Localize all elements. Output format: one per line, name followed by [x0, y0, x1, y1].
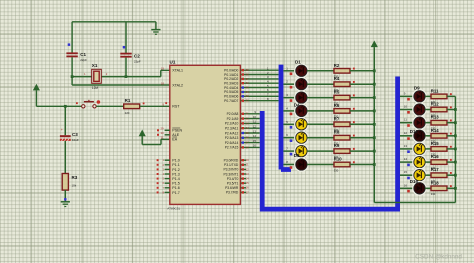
wire bus exit net 3 to LED — [283, 97, 295, 99]
svg-text:22: 22 — [246, 117, 250, 121]
wire resistor R15 to supply rail — [447, 148, 455, 150]
wire bus exit net 8 to LED — [283, 164, 295, 166]
svg-text:R12: R12 — [431, 102, 439, 107]
wire LED D13 to resistor — [425, 148, 431, 150]
svg-text:31: 31 — [160, 136, 164, 140]
power VCC arrow LED supply — [371, 41, 377, 46]
svg-text:3: 3 — [286, 93, 288, 97]
wire LED D14 to resistor — [425, 161, 431, 163]
wire resistor R2 to supply rail — [350, 70, 374, 72]
svg-text:15: 15 — [404, 170, 408, 174]
LED D16 — [413, 182, 426, 195]
svg-text:R16: R16 — [431, 154, 439, 159]
LED D11 — [413, 116, 426, 129]
wire resistor R4 to supply rail — [350, 83, 374, 85]
wire C1 bottom lead — [71, 57, 73, 85]
wire VCC to EA pin — [142, 136, 170, 145]
wire LED D5 to resistor — [307, 123, 334, 125]
svg-text:8: 8 — [286, 160, 288, 164]
wire resistor R8 to supply rail — [350, 137, 374, 139]
node junction supply rail right — [454, 134, 457, 137]
svg-text:P1.5: P1.5 — [172, 182, 179, 186]
svg-text:1: 1 — [286, 66, 288, 70]
node junction supply rail right — [454, 108, 457, 111]
svg-text:D12: D12 — [410, 129, 419, 134]
pin P3.6/WR stub — [240, 187, 246, 189]
LED D1 — [295, 64, 308, 77]
svg-text:21: 21 — [246, 112, 250, 116]
wire LED D15 to resistor — [425, 174, 431, 176]
svg-text:12: 12 — [404, 131, 408, 135]
resistor R6 — [334, 103, 355, 119]
resistor R1 — [124, 98, 145, 115]
svg-text:R17: R17 — [431, 167, 439, 172]
svg-text:P3.3/INT1: P3.3/INT1 — [223, 172, 238, 176]
wire RST row down to C3 — [64, 106, 66, 135]
wire bus exit net 2 to LED — [283, 83, 295, 85]
pin P1.0 stub — [165, 159, 170, 161]
wire crystal row to XTAL1 — [72, 70, 170, 76]
node junction supply rail — [373, 150, 376, 153]
svg-text:P2.1/A9: P2.1/A9 — [227, 117, 239, 121]
svg-text:16: 16 — [404, 183, 408, 187]
wire C1 top lead — [71, 22, 73, 53]
svg-text:16: 16 — [253, 144, 257, 148]
svg-text:U1: U1 — [170, 60, 176, 65]
pin P3.3/INT1 stub — [240, 173, 246, 175]
svg-text:EA: EA — [172, 138, 177, 142]
svg-text:XTAL2: XTAL2 — [172, 83, 183, 87]
wire left supply rail — [373, 47, 375, 202]
svg-text:P1.1: P1.1 — [172, 163, 179, 167]
svg-text:ALE: ALE — [172, 133, 179, 137]
node junction supply rail — [373, 96, 376, 99]
node junction RST/C3 — [64, 105, 67, 108]
resistor R5 — [334, 90, 355, 106]
svg-text:1: 1 — [162, 158, 164, 162]
svg-text:R14: R14 — [431, 128, 439, 133]
wire bus exit net 9 to LED — [400, 95, 414, 97]
svg-text:RST: RST — [172, 105, 180, 109]
svg-text:X1: X1 — [92, 63, 98, 68]
svg-text:R8: R8 — [334, 130, 340, 135]
pin P3.7/RD stub — [240, 191, 246, 193]
wire LED D1 to resistor — [307, 70, 334, 72]
svg-text:P3.2/INT0: P3.2/INT0 — [223, 168, 238, 172]
wire top rail C1-C2-ground — [72, 21, 156, 23]
svg-text:17: 17 — [246, 190, 250, 194]
resistor R16 — [431, 154, 452, 170]
wire LED D16 to resistor — [425, 187, 431, 189]
wire bus exit net 13 to LED — [400, 148, 414, 150]
wire LED D6 to resistor — [307, 137, 334, 139]
wire C2 top lead — [125, 22, 127, 53]
svg-text:29: 29 — [160, 127, 164, 131]
svg-text:12: 12 — [246, 167, 250, 171]
svg-text:10: 10 — [253, 115, 257, 119]
svg-text:P2.0/A8: P2.0/A8 — [227, 112, 239, 116]
wire bus exit net 15 to LED — [400, 174, 414, 176]
node junction supply rail right — [454, 161, 457, 164]
resistor R18 — [431, 180, 452, 196]
svg-text:330: 330 — [431, 192, 436, 196]
svg-text:11: 11 — [246, 163, 249, 167]
node junction C1/crystal — [71, 75, 74, 78]
pin P1.4 stub — [165, 178, 170, 180]
resistor R14 — [431, 128, 452, 144]
svg-text:C2: C2 — [134, 54, 140, 59]
svg-text:19: 19 — [161, 67, 165, 71]
pin P0.4/AD4 with wire to bus — [240, 87, 278, 89]
node junction supply rail — [373, 163, 376, 166]
pin P3.1/TXD stub — [240, 164, 246, 166]
svg-text:P3.1/TXD: P3.1/TXD — [224, 163, 239, 167]
svg-text:R3: R3 — [72, 175, 78, 180]
wire LED D12 to resistor — [425, 135, 431, 137]
resistor R13 — [431, 115, 452, 131]
wire resistor R7 to supply rail — [350, 123, 374, 125]
wire C3 to R3 — [64, 141, 66, 174]
svg-text:35: 35 — [246, 86, 250, 90]
pin P0.2/AD2 with wire to bus — [240, 78, 278, 80]
svg-text:+: + — [61, 128, 63, 132]
pin P3.0/RXD stub — [240, 159, 246, 161]
resistor R3 — [62, 174, 78, 191]
svg-text:30: 30 — [160, 131, 164, 135]
svg-text:P1.2: P1.2 — [172, 168, 179, 172]
svg-text:23: 23 — [246, 121, 250, 125]
svg-text:P0.7/AD7: P0.7/AD7 — [224, 99, 238, 103]
svg-text:7: 7 — [162, 186, 164, 190]
wire bus exit net 10 to LED — [400, 109, 414, 111]
svg-text:39: 39 — [246, 68, 250, 72]
svg-text:D1: D1 — [295, 59, 301, 64]
pin P0.7/AD7 with wire to bus — [240, 100, 278, 102]
svg-text:P0.5/AD5: P0.5/AD5 — [224, 90, 238, 94]
pin P1.7 stub — [165, 191, 170, 193]
wire ground stem top right — [155, 22, 157, 30]
svg-text:P2.4/A12: P2.4/A12 — [225, 131, 239, 135]
svg-text:5: 5 — [286, 120, 288, 124]
svg-text:7: 7 — [286, 147, 288, 151]
wire LED D8 to resistor — [307, 164, 334, 166]
svg-text:R11: R11 — [431, 88, 439, 93]
node C1 state marker — [68, 43, 71, 46]
svg-text:13: 13 — [253, 129, 257, 133]
wire C2 bottom lead — [125, 58, 127, 77]
svg-text:15: 15 — [253, 139, 257, 143]
svg-text:14: 14 — [253, 134, 257, 138]
svg-text:P3.5/T1: P3.5/T1 — [227, 182, 239, 186]
pushbutton reset switch — [76, 100, 100, 108]
svg-text:C1: C1 — [80, 52, 86, 57]
svg-text:220: 220 — [125, 111, 130, 115]
wire bus exit net 16 to LED — [400, 187, 414, 189]
wire bus exit net 5 to LED — [283, 123, 295, 125]
wire resistor R11 to supply rail — [447, 95, 455, 97]
wire resistor R18 to supply rail — [447, 187, 455, 189]
pin P1.5 stub — [165, 182, 170, 184]
LED D14 — [413, 156, 426, 169]
wire resistor R16 to supply rail — [447, 161, 455, 163]
capacitor C3 electrolytic — [60, 128, 79, 142]
pin P2.2/A10 with wire to bus — [240, 122, 259, 124]
node junction supply rail right — [454, 174, 457, 177]
resistor R12 — [431, 102, 452, 118]
wire VCC to RST row — [36, 90, 81, 106]
node junction supply rail right — [454, 121, 457, 124]
svg-text:P1.6: P1.6 — [172, 186, 179, 190]
capacitor C1 — [66, 52, 87, 62]
svg-text:R9: R9 — [334, 143, 340, 148]
svg-text:P0.1/AD1: P0.1/AD1 — [224, 73, 238, 77]
node C2 state marker — [123, 46, 126, 49]
svg-text:3: 3 — [162, 167, 164, 171]
svg-text:10: 10 — [246, 158, 250, 162]
svg-text:R6: R6 — [334, 103, 340, 108]
LED D12 — [413, 129, 426, 142]
wire R1 to RST pin — [140, 105, 170, 107]
svg-text:D8: D8 — [294, 153, 300, 158]
wire bus exit net 14 to LED — [400, 161, 414, 163]
wire resistor R13 to supply rail — [447, 122, 455, 124]
svg-text:11: 11 — [253, 120, 256, 124]
svg-text:AT89C51: AT89C51 — [167, 206, 180, 210]
bus P2 U-shape to right LED column — [260, 77, 398, 212]
node junction supply rail — [373, 83, 376, 86]
svg-text:R13: R13 — [431, 115, 439, 120]
svg-text:28: 28 — [246, 145, 250, 149]
resistor R10 — [334, 157, 355, 173]
svg-text:R4: R4 — [334, 76, 340, 81]
svg-text:C3: C3 — [72, 132, 78, 137]
LED D15 — [413, 169, 426, 182]
svg-text:D16: D16 — [410, 179, 419, 184]
svg-text:2: 2 — [286, 80, 288, 84]
svg-text:1: 1 — [84, 72, 86, 76]
svg-text:P1.0: P1.0 — [172, 159, 179, 163]
pin P2.3/A11 with wire to bus — [240, 127, 259, 129]
svg-text:11: 11 — [404, 118, 407, 122]
svg-text:P3.0/RXD: P3.0/RXD — [224, 159, 239, 163]
svg-text:5: 5 — [162, 177, 164, 181]
svg-text:P2.7/A15: P2.7/A15 — [225, 146, 239, 150]
pin P1.1 stub — [165, 164, 170, 166]
wire resistor R14 to supply rail — [447, 135, 455, 137]
svg-text:P0.3/AD3: P0.3/AD3 — [224, 82, 238, 86]
svg-text:P0.6/AD6: P0.6/AD6 — [224, 95, 238, 99]
resistor R2 — [334, 63, 355, 79]
node junction supply rail — [373, 136, 376, 139]
wire resistor R9 to supply rail — [350, 150, 374, 152]
svg-text:26: 26 — [246, 136, 250, 140]
LED D5 — [295, 118, 308, 131]
svg-text:2: 2 — [162, 163, 164, 167]
resistor R9 — [334, 143, 355, 159]
wire XTAL2 row — [72, 84, 170, 86]
wire button to R1 — [96, 105, 124, 107]
capacitor C2 — [120, 53, 141, 64]
svg-text:P2.6/A14: P2.6/A14 — [225, 141, 239, 145]
svg-text:330: 330 — [334, 168, 339, 172]
LED D9 — [413, 90, 426, 103]
svg-text:P3.7/RD: P3.7/RD — [226, 191, 239, 195]
wire bus exit net 4 to LED — [283, 110, 295, 112]
svg-text:PSEN: PSEN — [172, 129, 182, 133]
svg-text:R7: R7 — [334, 116, 340, 121]
wire bus exit net 6 to LED — [283, 137, 295, 139]
svg-text:10uF: 10uF — [72, 138, 79, 142]
wire resistor R17 to supply rail — [447, 174, 455, 176]
bus P0 vertical (left LED column) — [281, 65, 291, 170]
svg-text:D4: D4 — [294, 103, 300, 108]
power VCC arrow EA — [139, 130, 145, 135]
svg-text:12M: 12M — [92, 86, 99, 90]
pin P3.5/T1 stub — [240, 182, 246, 184]
node junction C2/crystal — [125, 75, 128, 78]
LED D4 — [295, 104, 308, 117]
svg-text:10: 10 — [404, 105, 408, 109]
resistor R15 — [431, 141, 452, 157]
resistor R11 — [431, 88, 452, 104]
pin P1.6 stub — [165, 187, 170, 189]
node junction supply rail — [373, 69, 376, 72]
svg-text:R15: R15 — [431, 141, 439, 146]
wire resistor R12 to supply rail — [447, 109, 455, 111]
pin P2.6/A14 with wire to bus — [240, 142, 259, 144]
node junction supply rail right — [454, 148, 457, 151]
svg-text:CSDN @kdnnnd: CSDN @kdnnnd — [415, 253, 462, 260]
svg-text:R5: R5 — [334, 90, 340, 95]
resistor R8 — [334, 130, 355, 146]
pin P0.1/AD1 with wire to bus — [240, 74, 278, 76]
svg-text:R18: R18 — [431, 180, 439, 185]
pin P2.0/A8 with wire to bus — [240, 113, 259, 115]
LED D3 — [295, 91, 308, 104]
pin P2.4/A12 with wire to bus — [240, 132, 259, 134]
wire ALE stub — [165, 134, 170, 136]
svg-text:P2.5/A13: P2.5/A13 — [225, 136, 239, 140]
op-amp U1 AT89C51 microcontroller body — [170, 65, 241, 204]
svg-text:R2: R2 — [334, 63, 340, 68]
wire R3 to ground — [64, 190, 66, 201]
svg-text:R10: R10 — [334, 157, 342, 162]
LED D6 — [295, 131, 308, 144]
svg-text:6: 6 — [162, 181, 164, 185]
wire bus exit net 7 to LED — [283, 150, 295, 152]
svg-text:12: 12 — [253, 125, 257, 129]
wire resistor R10 to supply rail — [350, 164, 374, 166]
svg-text:16: 16 — [246, 186, 250, 190]
pin P2.5/A13 with wire to bus — [240, 137, 259, 139]
ground below R3 — [61, 202, 70, 207]
wire LED D3 to resistor — [307, 97, 334, 99]
wire LED D9 to resistor — [425, 95, 431, 97]
pin P0.6/AD6 with wire to bus — [240, 95, 278, 97]
wire resistor R5 to supply rail — [350, 97, 374, 99]
svg-text:P3.6/WR: P3.6/WR — [225, 186, 239, 190]
LED D10 — [413, 103, 426, 116]
wire resistor R6 to supply rail — [350, 110, 374, 112]
svg-text:22pF: 22pF — [80, 58, 87, 62]
svg-text:P2.2/A10: P2.2/A10 — [225, 122, 239, 126]
svg-text:9: 9 — [404, 91, 406, 95]
svg-text:14: 14 — [246, 177, 250, 181]
pin P2.1/A9 with wire to bus — [240, 118, 259, 120]
LED D13 — [413, 142, 426, 155]
crystal X1 — [84, 63, 108, 90]
wire LED D4 to resistor — [307, 110, 334, 112]
svg-text:27: 27 — [246, 141, 250, 145]
svg-text:37: 37 — [246, 77, 250, 81]
pin P2.7/A15 with wire to bus — [240, 146, 259, 148]
svg-text:R1: R1 — [125, 98, 131, 103]
svg-text:18: 18 — [161, 81, 165, 85]
svg-text:22pF: 22pF — [134, 59, 141, 63]
pin P0.5/AD5 with wire to bus — [240, 91, 278, 93]
svg-text:D9: D9 — [414, 85, 420, 90]
node junction supply rail right — [454, 187, 457, 190]
wire PSEN stub — [165, 129, 170, 131]
svg-text:25: 25 — [246, 131, 250, 135]
ground top right — [151, 30, 160, 35]
wire bus exit net 11 to LED — [400, 122, 414, 124]
svg-text:32: 32 — [246, 99, 250, 103]
power VCC arrow left — [34, 85, 40, 90]
svg-text:XTAL1: XTAL1 — [172, 69, 183, 73]
svg-text:13: 13 — [246, 172, 250, 176]
svg-text:8: 8 — [162, 190, 164, 194]
wire bottom supply link — [374, 202, 455, 204]
svg-text:P1.7: P1.7 — [172, 191, 179, 195]
LED D2 — [295, 78, 308, 91]
svg-text:4: 4 — [286, 106, 288, 110]
wire LED D2 to resistor — [307, 83, 334, 85]
node junction supply rail — [373, 123, 376, 126]
svg-text:6: 6 — [286, 133, 288, 137]
svg-text:P1.3: P1.3 — [172, 172, 179, 176]
svg-text:P2.3/A11: P2.3/A11 — [225, 127, 238, 131]
wire LED D10 to resistor — [425, 109, 431, 111]
svg-text:14: 14 — [404, 157, 408, 161]
wire LED D7 to resistor — [307, 150, 334, 152]
svg-text:10k: 10k — [72, 183, 77, 187]
resistor R4 — [334, 76, 355, 92]
pin P3.4/T0 stub — [240, 178, 246, 180]
svg-text:33: 33 — [246, 94, 250, 98]
resistor R17 — [431, 167, 452, 183]
svg-text:4: 4 — [162, 172, 164, 176]
svg-text:2: 2 — [106, 72, 108, 76]
pin P1.3 stub — [165, 173, 170, 175]
svg-text:15: 15 — [246, 181, 250, 185]
pin P0.0/AD0 with wire to bus — [240, 69, 278, 71]
LED D7 — [295, 145, 308, 158]
wire LED D11 to resistor — [425, 122, 431, 124]
wire right supply rail — [454, 96, 456, 202]
pin P3.2/INT0 stub — [240, 168, 246, 170]
pin P0.3/AD3 with wire to bus — [240, 82, 278, 84]
svg-text:24: 24 — [246, 126, 250, 130]
svg-text:P1.4: P1.4 — [172, 177, 179, 181]
svg-text:13: 13 — [404, 144, 408, 148]
pin P1.2 stub — [165, 168, 170, 170]
resistor R7 — [334, 116, 355, 132]
wire bus exit net 12 to LED — [400, 135, 414, 137]
wire bus exit net 1 to LED — [283, 70, 295, 72]
svg-text:P3.4/T0: P3.4/T0 — [227, 177, 239, 181]
LED D8 — [295, 158, 308, 171]
